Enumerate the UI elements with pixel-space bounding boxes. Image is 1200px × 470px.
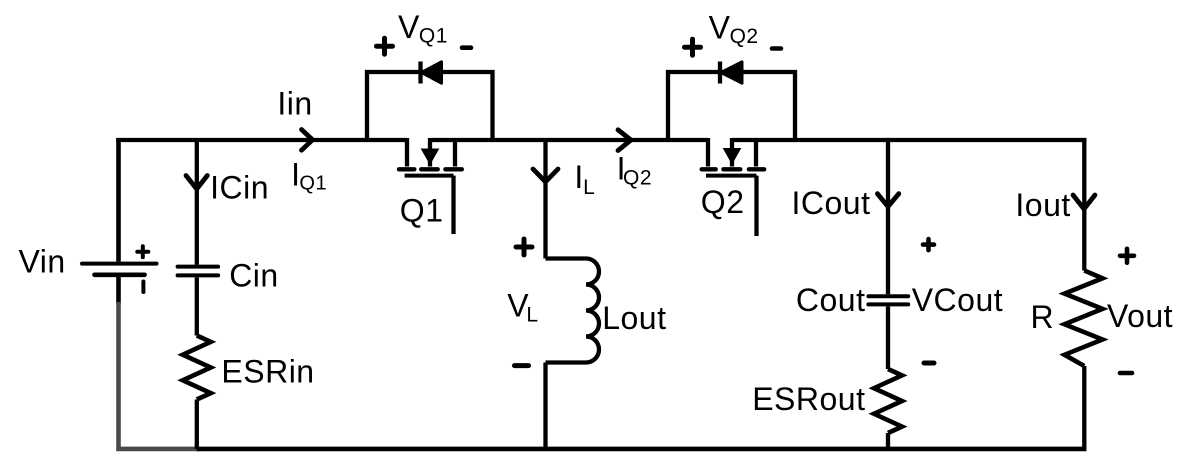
svg-text:Lout: Lout [602,300,666,336]
wire ESRout to ground rail [886,433,890,449]
svg-text:L: L [526,304,538,327]
svg-text:L: L [583,176,595,199]
wire load branch upper [1082,138,1086,271]
arrow Iin current arrow [302,130,313,151]
diode D2 body diode loop of Q2 [668,62,795,141]
wire load branch lower [1082,366,1086,449]
svg-text:R: R [1031,299,1055,335]
svg-text:ICout: ICout [792,185,871,221]
wire bottom ground rail [197,447,1087,452]
label VL with plus and minus [507,239,538,366]
battery Vin [82,246,157,292]
label IL [574,159,595,199]
svg-text:V: V [709,9,731,45]
wire top rail segment 3 (Q2 source to output node) [732,138,1086,142]
svg-text:Cin: Cin [229,257,279,293]
wire inductor branch bottom [543,363,547,449]
label VCout with plus and minus [912,239,1003,363]
arrow Iout current arrow [1073,195,1095,209]
resistor R load [1065,271,1103,367]
transistor Q2 MOSFET [702,138,765,236]
label VQ2 with plus and minus [685,9,782,55]
inductor Lout [546,259,600,363]
svg-text:ICin: ICin [210,170,269,206]
label IQ2 [617,151,652,190]
svg-text:V: V [398,9,420,45]
svg-text:Q2: Q2 [623,166,652,189]
arrow IL current arrow [533,169,558,182]
svg-text:Iin: Iin [277,86,312,122]
wire inductor branch top [543,140,547,259]
transistor Q1 MOSFET [399,138,462,234]
svg-text:Vin: Vin [19,244,66,280]
label VQ1 with plus and minus [377,9,472,54]
resistor ESRin [183,336,211,400]
svg-text:Vout: Vout [1107,298,1173,334]
wire top rail segment 2 (Q1 source to Q2 drain) [430,138,708,142]
wire Cin to ESRin [195,277,199,335]
svg-text:Q2: Q2 [701,184,745,220]
arrow IQ2 current arrow [618,130,631,151]
svg-text:Q1: Q1 [299,173,327,195]
wire Cout to ESRout [886,307,890,370]
arrow ICin current arrow [186,176,207,190]
capacitor Cin [178,267,219,276]
wire Cin branch upper [195,140,199,265]
wire gray return loop bottom-left [119,302,200,449]
label IQ1 [291,157,327,195]
svg-text:Cout: Cout [796,282,866,318]
resistor ESRout [874,369,902,433]
svg-text:VCout: VCout [912,282,1003,318]
svg-text:Q1: Q1 [419,25,448,48]
arrow ICout current arrow [877,194,898,207]
wire top rail segment 1 (Vin node to Q1 drain) [116,138,407,142]
svg-text:ESRin: ESRin [221,354,314,390]
svg-text:Q2: Q2 [730,25,759,48]
wire ESRin to ground rail [195,400,199,449]
svg-text:ESRout: ESRout [752,381,865,417]
svg-text:Iout: Iout [1015,187,1070,223]
wire Cout branch upper [886,140,890,294]
diode D1 body diode loop of Q1 [367,62,493,141]
capacitor Cout [868,296,908,304]
wire battery negative lead (black part) [116,277,121,304]
wire left vertical from top rail to battery [116,138,121,262]
label Vout with plus and minus [1107,249,1173,373]
svg-text:Q1: Q1 [400,193,444,229]
